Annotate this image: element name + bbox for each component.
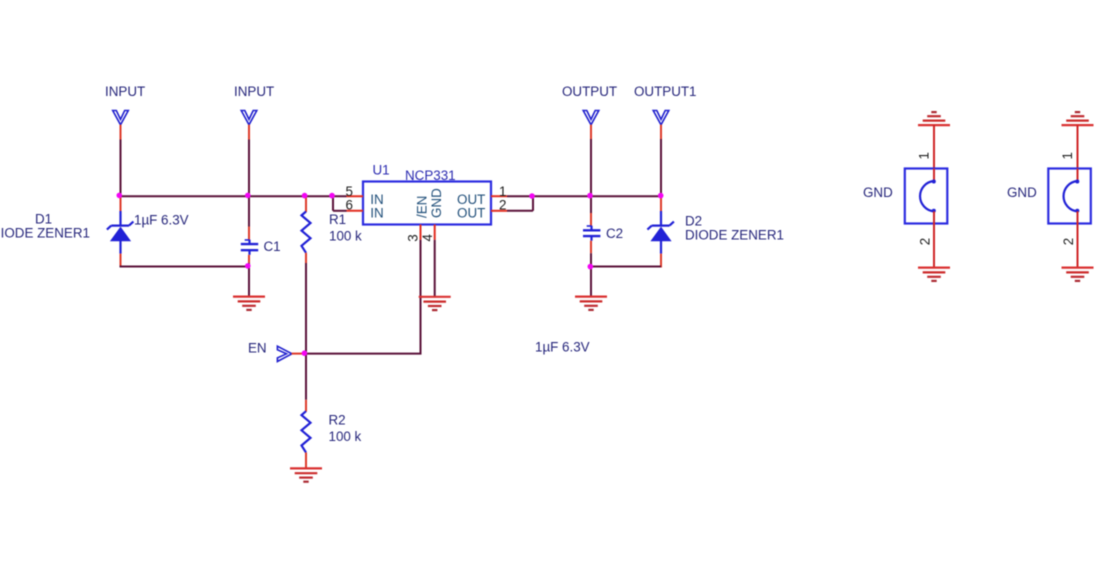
svg-text:GND: GND xyxy=(1007,185,1037,200)
svg-text:3: 3 xyxy=(405,234,420,241)
svg-text:100 k: 100 k xyxy=(329,228,362,243)
svg-text:1: 1 xyxy=(1060,152,1075,159)
wire EN horizontal xyxy=(306,353,422,355)
wire J2 bottom red xyxy=(1077,224,1079,268)
pin 4 (GND) xyxy=(420,188,444,242)
wire INPUT left down to bus xyxy=(120,140,122,197)
svg-text:IN: IN xyxy=(370,205,383,220)
svg-text:C1: C1 xyxy=(264,239,281,254)
svg-text:OUTPUT: OUTPUT xyxy=(562,84,617,99)
port INPUT (left) xyxy=(105,84,145,140)
svg-text:INPUT: INPUT xyxy=(105,84,145,99)
svg-text:6: 6 xyxy=(346,197,353,212)
jumper J2 (GND) xyxy=(1007,112,1094,281)
ground (under C1) xyxy=(233,297,265,310)
svg-text:INPUT: INPUT xyxy=(234,84,274,99)
wire input bus xyxy=(120,195,347,197)
power symbol inverted (top of J2) xyxy=(1075,111,1080,113)
resistor R2 xyxy=(302,400,311,468)
svg-text:GND: GND xyxy=(429,188,444,218)
wire bottom-left link xyxy=(120,266,250,268)
wire pin6 branch vertical xyxy=(332,196,334,211)
pin 6 (IN) xyxy=(346,197,384,220)
svg-text:C2: C2 xyxy=(606,226,623,241)
capacitor C2 xyxy=(583,196,600,296)
wire R1 to EN junction to R2 xyxy=(305,263,307,400)
svg-text:D1: D1 xyxy=(35,211,52,226)
diode zener D1 xyxy=(107,196,133,267)
jumper J1 (GND) xyxy=(863,112,950,281)
svg-text:GND: GND xyxy=(863,185,893,200)
pin 2 (OUT) xyxy=(457,197,507,220)
pin 1 (OUT) xyxy=(457,184,507,207)
svg-text:2: 2 xyxy=(1061,238,1076,245)
wire pin6 branch horizontal xyxy=(333,210,347,212)
port OUTPUT1 xyxy=(634,84,697,139)
svg-text:2: 2 xyxy=(918,238,933,245)
wire INPUT second down to bus xyxy=(248,140,250,197)
wire output bus xyxy=(507,195,661,197)
pin 3 (/EN) xyxy=(405,196,429,242)
svg-text:NCP331: NCP331 xyxy=(405,168,456,183)
port INPUT (second) xyxy=(234,84,274,140)
wire pin2 branch vertical xyxy=(532,196,534,211)
op-amp U1 NCP331 body xyxy=(363,163,491,225)
svg-text:R2: R2 xyxy=(329,413,346,428)
svg-text:/EN: /EN xyxy=(415,196,430,218)
pin 5 (IN) xyxy=(346,184,384,207)
svg-text:1µF 6.3V: 1µF 6.3V xyxy=(134,212,189,227)
jumper body xyxy=(1048,169,1091,224)
wire OUTPUT1 down to bus xyxy=(660,139,662,196)
svg-text:2: 2 xyxy=(499,197,506,212)
svg-text:U1: U1 xyxy=(373,163,390,178)
wire J2 top red xyxy=(1077,125,1079,169)
svg-text:DIODE ZENER1: DIODE ZENER1 xyxy=(685,228,784,243)
wire J1 top red xyxy=(933,125,935,169)
svg-text:EN: EN xyxy=(248,341,267,356)
ground (bottom of J2) xyxy=(1062,267,1094,269)
node junction dots xyxy=(117,193,123,199)
wire OUTPUT down to bus xyxy=(590,139,592,196)
wire pin4 down to ground xyxy=(434,240,436,296)
wire bottom-right link xyxy=(591,266,661,268)
svg-text:D2: D2 xyxy=(685,214,702,229)
port OUTPUT xyxy=(562,84,617,139)
svg-text:1: 1 xyxy=(916,152,931,159)
wire J1 bottom red xyxy=(933,224,935,268)
ground (under R2) xyxy=(290,468,322,481)
capacitor C1 xyxy=(241,196,258,296)
resistor R1 xyxy=(302,196,311,263)
diode zener D2 xyxy=(647,196,674,267)
svg-text:4: 4 xyxy=(420,234,435,242)
svg-text:DIODE ZENER1: DIODE ZENER1 xyxy=(0,225,90,240)
svg-text:OUTPUT1: OUTPUT1 xyxy=(634,84,697,99)
ground (under U1 pin 4) xyxy=(419,297,451,310)
wire pin2 branch horizontal xyxy=(507,210,533,212)
jumper body xyxy=(905,169,948,224)
svg-text:100 k: 100 k xyxy=(329,429,362,444)
svg-text:R1: R1 xyxy=(329,212,346,227)
wire pin3 down to EN net xyxy=(420,240,422,355)
svg-text:1µF 6.3V: 1µF 6.3V xyxy=(535,339,590,354)
port EN xyxy=(248,341,304,362)
ground (under C2) xyxy=(575,297,607,310)
svg-text:OUT: OUT xyxy=(457,205,485,220)
power symbol inverted (top of J1) xyxy=(931,111,936,113)
ground (bottom of J1) xyxy=(918,267,950,269)
